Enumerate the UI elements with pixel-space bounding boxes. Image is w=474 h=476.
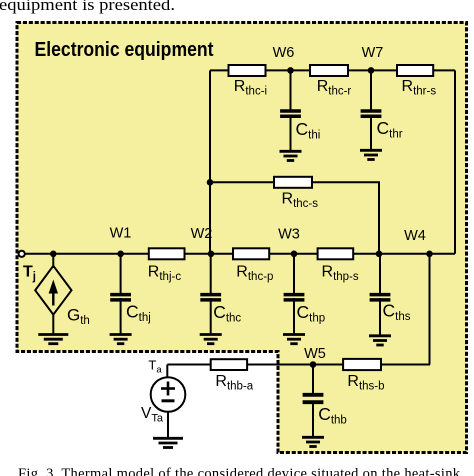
resistor Rthc-p (233, 248, 273, 283)
node W5 (310, 361, 317, 368)
wire: W4 drop to W5 rail (429, 254, 431, 365)
capacitor Cthc (200, 254, 241, 335)
node Rthc-s lower junction (376, 251, 383, 258)
node W7 (368, 67, 375, 74)
capacitor Cthb (303, 365, 347, 437)
resistor Rthb-a (211, 359, 254, 392)
ground (Gth) (38, 335, 68, 344)
wire: vertical W2 up to top rail (209, 70, 211, 253)
svg-text:Ta: Ta (148, 358, 162, 376)
node Gth junction (50, 251, 57, 258)
resistor Rthc-i (229, 65, 268, 98)
wire: right vertical from top rail down to main rail (454, 70, 456, 253)
svg-text:W1: W1 (110, 226, 132, 242)
resistor Rthj-c (148, 248, 185, 283)
node W4 (426, 251, 433, 258)
svg-text:W2: W2 (191, 226, 213, 242)
resistor Rthp-s (318, 248, 359, 283)
voltage source VTa (141, 365, 185, 439)
current source Gth (35, 254, 90, 334)
svg-text:Rthb-a: Rthb-a (215, 373, 253, 393)
ground (Cthj) (110, 335, 132, 344)
svg-text:Fig. 3. Thermal model of the: Fig. 3. Thermal model of the considered … (18, 466, 461, 476)
wire: Rthc-s branch (210, 182, 379, 254)
capacitor Cthr (361, 70, 403, 151)
resistor Rthr-s (397, 65, 436, 98)
svg-text:W7: W7 (362, 45, 384, 61)
resistor Rths-b (343, 359, 384, 393)
ground (Cthc) (200, 335, 222, 344)
svg-text:equipment is presented.: equipment is presented. (0, 0, 175, 14)
svg-text:W5: W5 (304, 346, 326, 362)
capacitor Cthj (110, 254, 151, 335)
wire: W5 rail (167, 364, 430, 366)
svg-text:W3: W3 (278, 227, 300, 243)
terminal Tj (open circle) (19, 251, 25, 257)
ground (Cthi) (280, 151, 302, 160)
resistor Rthc-r (310, 65, 351, 98)
svg-text:W6: W6 (273, 45, 295, 61)
ground (Cthp) (283, 335, 305, 344)
node W2 (208, 251, 215, 258)
ground (VTa) (153, 438, 183, 447)
wire: main rail Tj W1 W2 W3 W4 (25, 253, 456, 255)
node W3 (291, 251, 298, 258)
svg-text:W4: W4 (404, 228, 426, 244)
node Rthc-s junction (207, 179, 214, 186)
resistor Rthc-s (274, 177, 318, 210)
capacitor Cths (370, 254, 411, 336)
ground (Cthr) (360, 150, 382, 159)
ground (Cths) (369, 336, 391, 345)
node W6 (287, 67, 294, 74)
capacitor Cthp (284, 254, 326, 335)
node W1 (117, 251, 124, 258)
wire: top rail W6 W7 (210, 69, 455, 71)
ground (Cthb) (302, 437, 324, 446)
svg-text:Electronic equipment: Electronic equipment (35, 39, 214, 61)
capacitor Cthi (280, 70, 320, 152)
